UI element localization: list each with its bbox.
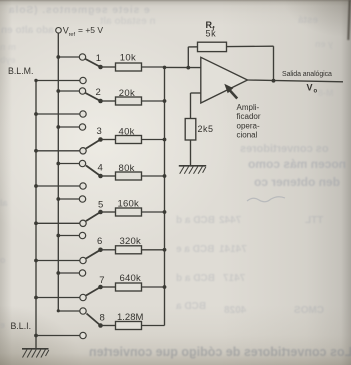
svg-text:B.L.M.: B.L.M. bbox=[8, 66, 33, 76]
svg-text:Salida analógica: Salida analógica bbox=[282, 71, 332, 78]
svg-text:ficador: ficador bbox=[237, 112, 261, 121]
svg-text:1: 1 bbox=[96, 53, 101, 64]
svg-text:7: 7 bbox=[99, 275, 104, 286]
svg-text:5: 5 bbox=[98, 200, 103, 211]
svg-text:V: V bbox=[63, 26, 69, 36]
svg-text:320k: 320k bbox=[120, 236, 141, 247]
svg-text:R: R bbox=[206, 20, 213, 30]
svg-text:ref: ref bbox=[69, 32, 76, 38]
svg-text:20k: 20k bbox=[119, 88, 135, 99]
svg-text:f: f bbox=[212, 26, 215, 33]
svg-text:2: 2 bbox=[96, 87, 101, 98]
svg-text:Ampli-: Ampli- bbox=[237, 103, 260, 112]
svg-text:4: 4 bbox=[98, 163, 103, 174]
svg-text:80k: 80k bbox=[119, 163, 135, 174]
svg-text:640k: 640k bbox=[120, 273, 141, 284]
svg-text:160k: 160k bbox=[118, 199, 139, 210]
svg-text:cional: cional bbox=[237, 131, 258, 140]
svg-text:40k: 40k bbox=[119, 127, 135, 138]
svg-text:8: 8 bbox=[100, 313, 105, 324]
svg-text:V: V bbox=[307, 83, 313, 93]
svg-text:10k: 10k bbox=[120, 53, 136, 64]
svg-text:o: o bbox=[314, 89, 318, 95]
svg-text:6: 6 bbox=[97, 236, 102, 247]
svg-text:3: 3 bbox=[97, 126, 102, 137]
svg-text:B.L.I.: B.L.I. bbox=[11, 321, 32, 331]
svg-text:opera-: opera- bbox=[237, 121, 260, 130]
svg-text:5k: 5k bbox=[206, 29, 217, 39]
svg-text:1.28M: 1.28M bbox=[117, 312, 143, 323]
svg-text:2k5: 2k5 bbox=[198, 124, 214, 134]
